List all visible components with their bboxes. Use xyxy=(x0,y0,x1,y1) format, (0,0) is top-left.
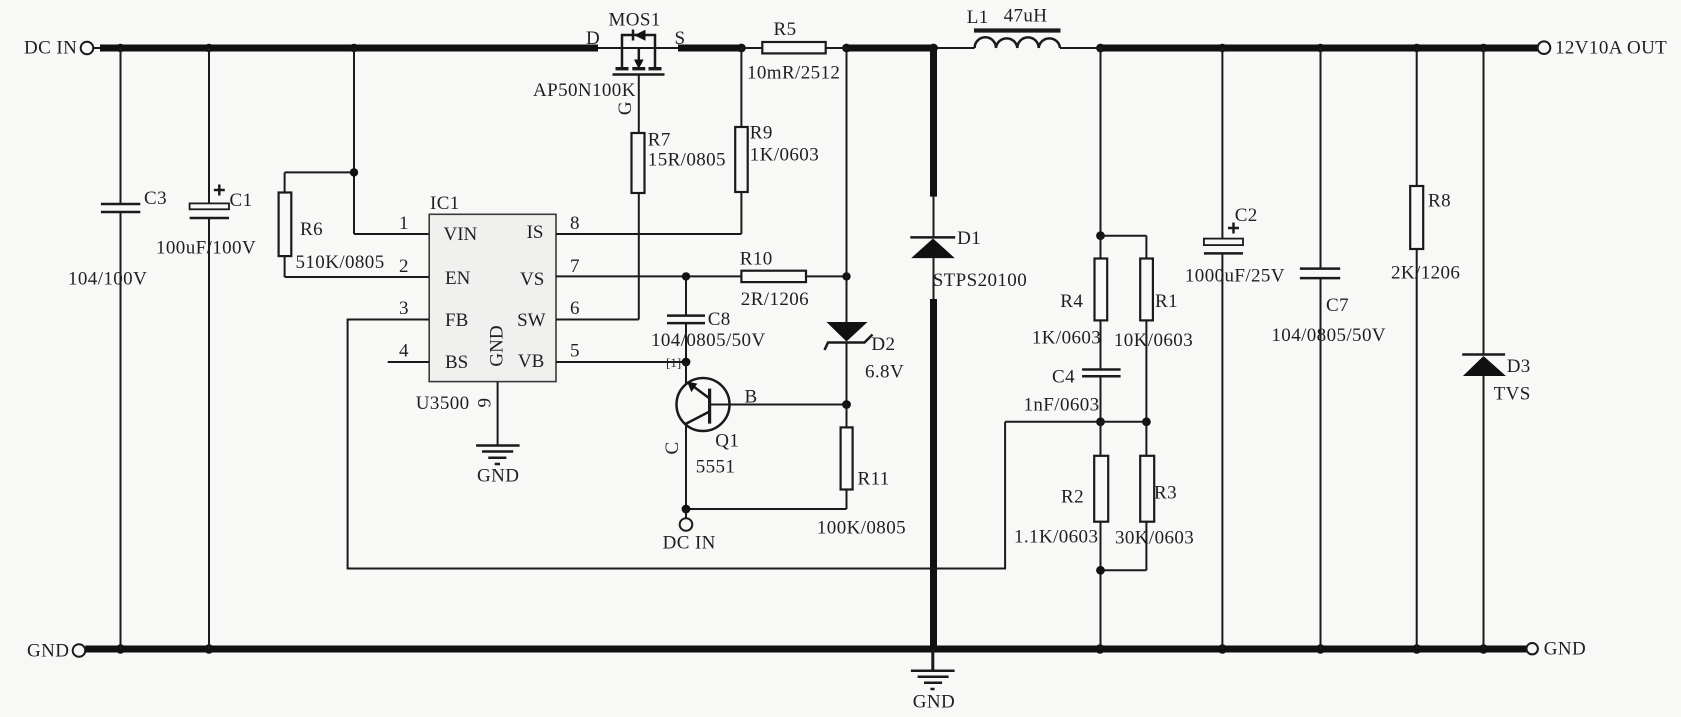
capacitor C4 xyxy=(1024,367,1121,422)
svg-text:R10: R10 xyxy=(740,249,773,270)
svg-text:D3: D3 xyxy=(1507,356,1531,377)
svg-text:VB: VB xyxy=(518,351,544,372)
wire bottom GND rail (thick) xyxy=(85,646,1526,653)
capacitor C3 xyxy=(68,48,167,649)
node collector junction xyxy=(682,505,691,514)
diode D2 zener 6.8V xyxy=(825,322,905,405)
diode D1 STPS20100 xyxy=(910,48,1027,649)
svg-text:GND: GND xyxy=(486,325,507,366)
svg-text:G: G xyxy=(615,101,636,115)
svg-text:12V10A OUT: 12V10A OUT xyxy=(1555,38,1667,59)
svg-text:104/100V: 104/100V xyxy=(68,269,147,290)
svg-text:1K/0603: 1K/0603 xyxy=(750,145,819,166)
svg-text:R8: R8 xyxy=(1428,191,1451,212)
ground symbol bottom center xyxy=(911,649,955,713)
wire R7 bottom to SW pin6 xyxy=(638,193,640,320)
svg-text:U3500: U3500 xyxy=(416,393,470,414)
capacitor C2 (electrolytic) xyxy=(1185,48,1285,649)
wire feedback to FB pin3 xyxy=(348,320,1006,569)
node FB junctions xyxy=(1096,417,1105,426)
svg-text:100uF/100V: 100uF/100V xyxy=(156,238,256,259)
wire pin9 GND xyxy=(497,382,499,445)
svg-text:[1]: [1] xyxy=(666,355,681,370)
wire VB pin5 to C8 bottom node xyxy=(556,361,686,363)
svg-text:D2: D2 xyxy=(871,334,895,355)
svg-text:2R/1206: 2R/1206 xyxy=(741,289,809,310)
svg-text:9: 9 xyxy=(474,398,495,408)
wire D1 column from R5 node down xyxy=(846,48,848,322)
svg-text:47uH: 47uH xyxy=(1004,6,1048,27)
svg-text:DC IN: DC IN xyxy=(663,533,716,554)
svg-text:104/0805/50V: 104/0805/50V xyxy=(1271,325,1386,346)
svg-text:R9: R9 xyxy=(750,123,773,144)
resistor R7 xyxy=(632,130,726,194)
svg-text:AP50N100K: AP50N100K xyxy=(533,80,636,101)
wire L1 output to rail node xyxy=(1060,47,1101,49)
svg-text:R5: R5 xyxy=(774,19,797,40)
wire feedback column from rail xyxy=(1100,48,1102,236)
svg-text:1nF/0603: 1nF/0603 xyxy=(1024,395,1100,416)
svg-text:FB: FB xyxy=(445,310,468,331)
svg-text:6.8V: 6.8V xyxy=(865,362,904,383)
svg-text:510K/0805: 510K/0805 xyxy=(296,252,385,273)
wire top rail R5 right node to D1 column (thick) xyxy=(847,45,934,52)
wire pin4 BS stub xyxy=(388,361,430,363)
svg-text:Q1: Q1 xyxy=(715,431,739,452)
svg-text:SW: SW xyxy=(517,310,546,331)
op-amp U1 : IC1 U3500 body xyxy=(416,193,556,414)
resistor R2 xyxy=(1014,422,1108,649)
wire top rail MOSFET source to R5 left node (thick) xyxy=(678,45,741,52)
svg-text:C4: C4 xyxy=(1052,367,1075,388)
ground symbol under IC1 xyxy=(476,446,519,487)
svg-text:100K/0805: 100K/0805 xyxy=(817,518,906,539)
svg-text:104/0805/50V: 104/0805/50V xyxy=(651,330,766,351)
svg-text:VIN: VIN xyxy=(444,224,478,245)
node Q1 base junction xyxy=(842,400,851,409)
resistor R11 xyxy=(817,405,906,539)
resistor R9 xyxy=(735,48,819,234)
svg-text:6: 6 xyxy=(570,298,580,319)
svg-text:GND: GND xyxy=(27,641,69,662)
svg-text:1: 1 xyxy=(399,213,409,234)
svg-text:L1: L1 xyxy=(967,7,989,28)
junction dots on bottom rail xyxy=(116,644,125,653)
node R10 right junction xyxy=(842,272,850,280)
svg-text:S: S xyxy=(675,28,686,49)
svg-text:3: 3 xyxy=(399,298,409,319)
wire FB node row xyxy=(1005,421,1146,423)
svg-text:30K/0603: 30K/0603 xyxy=(1115,528,1194,549)
resistor R4 xyxy=(1032,236,1107,369)
svg-text:D: D xyxy=(586,28,600,49)
svg-text:GND: GND xyxy=(1544,639,1586,660)
svg-text:C: C xyxy=(662,441,683,454)
node R4/R1 top junction xyxy=(1096,231,1105,240)
svg-text:R4: R4 xyxy=(1060,291,1083,312)
svg-text:GND: GND xyxy=(477,466,519,487)
resistor R1 xyxy=(1101,236,1194,422)
resistor R3 xyxy=(1101,422,1195,571)
wire terminal to rail xyxy=(93,47,102,49)
capacitor C1 (electrolytic) xyxy=(156,48,256,649)
svg-text:IC1: IC1 xyxy=(430,193,460,214)
svg-text:2K/1206: 2K/1206 xyxy=(1391,263,1460,284)
wire top rail L1 to output (thick) xyxy=(1101,45,1538,52)
svg-text:7: 7 xyxy=(570,256,580,277)
wire Q1 collector row to R11 bottom xyxy=(686,508,847,510)
resistor R10 xyxy=(740,249,847,311)
resistor R5 xyxy=(741,19,846,84)
transistor MOS1 AP50N100K xyxy=(533,10,685,116)
wire top rail DC IN to MOSFET drain (thick) xyxy=(100,45,598,52)
svg-text:15R/0805: 15R/0805 xyxy=(648,150,726,171)
node DC IN input terminal xyxy=(81,42,94,55)
svg-text:C8: C8 xyxy=(708,309,731,330)
node R6 top junction xyxy=(350,168,358,176)
svg-text:10mR/2512: 10mR/2512 xyxy=(747,63,840,84)
svg-text:1.1K/0603: 1.1K/0603 xyxy=(1014,527,1098,548)
svg-text:STPS20100: STPS20100 xyxy=(933,270,1027,291)
junction dots on top rail xyxy=(116,44,124,52)
svg-text:C1: C1 xyxy=(230,190,253,211)
svg-text:5: 5 xyxy=(570,341,580,362)
node C8 top junction xyxy=(682,272,690,280)
svg-text:R1: R1 xyxy=(1155,291,1178,312)
wire top rail D1 node to L1 (thin) xyxy=(934,47,975,49)
node C8 bottom junction with [1] mark xyxy=(682,358,691,367)
svg-text:GND: GND xyxy=(913,692,955,713)
node DC IN terminal under Q1 xyxy=(685,509,687,518)
svg-text:C3: C3 xyxy=(144,188,167,209)
svg-text:R6: R6 xyxy=(300,219,323,240)
wire MOSFET gate to R7 xyxy=(638,75,640,134)
svg-text:VS: VS xyxy=(520,269,544,290)
svg-text:R11: R11 xyxy=(858,469,890,490)
svg-text:DC IN: DC IN xyxy=(24,38,77,59)
svg-text:10K/0603: 10K/0603 xyxy=(1114,330,1193,351)
diode D3 TVS xyxy=(1462,48,1531,649)
svg-text:C7: C7 xyxy=(1326,295,1349,316)
svg-text:2: 2 xyxy=(399,256,409,277)
wire Q1 base to D2/R11 node xyxy=(710,404,847,406)
svg-text:4: 4 xyxy=(399,341,409,362)
svg-text:8: 8 xyxy=(570,213,580,234)
svg-text:D1: D1 xyxy=(957,228,981,249)
svg-text:EN: EN xyxy=(445,268,471,289)
inductor L1 47uH xyxy=(967,6,1061,49)
svg-text:BS: BS xyxy=(445,352,468,373)
svg-text:R7: R7 xyxy=(648,130,671,151)
node GND right terminal xyxy=(1527,643,1538,654)
node GND left terminal xyxy=(73,644,86,657)
node R2/R3 bottom junction xyxy=(1096,566,1105,575)
svg-text:C2: C2 xyxy=(1235,205,1258,226)
transistor Q1 5551 xyxy=(662,362,758,509)
svg-text:R2: R2 xyxy=(1061,487,1084,508)
resistor R6 xyxy=(279,172,430,277)
resistor R8 xyxy=(1391,48,1460,649)
wire rail to pin1 xyxy=(353,48,355,234)
svg-text:R3: R3 xyxy=(1154,483,1177,504)
svg-text:TVS: TVS xyxy=(1494,384,1531,405)
svg-text:MOS1: MOS1 xyxy=(609,10,661,31)
wire IS pin8 to R9 bottom xyxy=(556,233,741,235)
svg-text:IS: IS xyxy=(527,222,544,243)
svg-text:1000uF/25V: 1000uF/25V xyxy=(1185,266,1285,287)
svg-text:5551: 5551 xyxy=(696,457,736,478)
capacitor C7 xyxy=(1271,48,1386,649)
node 12V10A OUT output terminal xyxy=(1538,41,1551,54)
svg-text:1K/0603: 1K/0603 xyxy=(1032,328,1101,349)
capacitor C8 xyxy=(651,276,766,362)
wire VS pin7 row xyxy=(556,275,741,277)
